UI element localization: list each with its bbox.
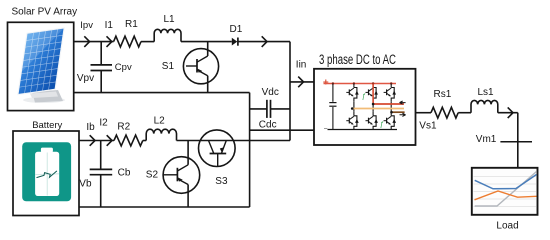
svg-text:Vdc: Vdc: [262, 87, 279, 98]
svg-text:Ipv: Ipv: [80, 20, 93, 31]
arrow Ib: [90, 135, 95, 146]
svg-text:Ls1: Ls1: [478, 87, 495, 98]
transistor S1: [183, 49, 218, 84]
svg-text:Battery: Battery: [32, 120, 62, 131]
svg-text:Vm1: Vm1: [476, 134, 497, 145]
inverter dc-link capacitor: [332, 84, 334, 102]
svg-text:I1: I1: [105, 20, 114, 31]
svg-text:Cb: Cb: [118, 168, 131, 179]
svg-text:S3: S3: [215, 176, 228, 187]
leg 2 mid wire: [372, 101, 374, 112]
transistor S2: [163, 157, 200, 194]
resistor Rs1: [431, 107, 458, 118]
transistor S3: [199, 130, 236, 167]
phase line A orange: [352, 108, 404, 110]
wire: positive bus vertical: [289, 42, 291, 141]
wire: battery bottom rail: [79, 206, 250, 208]
IGBT top leg 1: [353, 84, 355, 88]
wire: down to load: [517, 113, 519, 168]
wire: negative bus vertical: [249, 93, 251, 207]
capacitor Cb branch wire: [100, 141, 102, 170]
solar PV array box: [8, 22, 74, 110]
svg-text:Load: Load: [496, 220, 518, 231]
inverter + label: [323, 80, 328, 85]
rail junction dots: [332, 82, 334, 84]
svg-text:L2: L2: [154, 115, 166, 126]
inductor Ls1: [471, 100, 498, 112]
svg-text:Cdc: Cdc: [259, 120, 277, 131]
battery icon: [22, 142, 71, 201]
svg-text:ƒ: ƒ: [380, 120, 384, 129]
inductor L1: [154, 29, 181, 41]
svg-text:Vpv: Vpv: [77, 73, 94, 84]
svg-text:L1: L1: [164, 14, 176, 25]
solar panel image: [17, 27, 65, 103]
wire: PV top rail: [74, 41, 114, 43]
svg-text:R2: R2: [117, 122, 130, 133]
arrow I1: [107, 36, 112, 47]
svg-text:R1: R1: [125, 19, 138, 30]
phase line C brown: [391, 111, 404, 113]
capacitor Cdc plates: [266, 100, 268, 118]
svg-text:Iin: Iin: [296, 59, 307, 70]
arrow on brown phase: [400, 113, 406, 116]
load chart: [474, 172, 537, 207]
measurement Vm1 tick: [500, 141, 532, 143]
arrow output: [508, 107, 513, 118]
svg-text:I2: I2: [99, 117, 108, 128]
IGBT bottom leg 2: [372, 112, 374, 116]
svg-text:ƒ: ƒ: [362, 92, 366, 101]
resistor R1: [114, 36, 141, 47]
arrow on red phase: [400, 101, 406, 104]
inverter box: [314, 69, 416, 145]
svg-text:S1: S1: [162, 61, 175, 72]
capacitor Cpv branch wire: [100, 42, 102, 65]
IGBT top leg 3: [390, 84, 392, 88]
leg 3 mid wire: [390, 101, 392, 112]
leg 1 mid wire: [353, 101, 355, 112]
svg-text:Ib: Ib: [86, 122, 95, 133]
svg-text:Vs1: Vs1: [419, 120, 437, 131]
load box: [472, 168, 538, 215]
wire: battery top rail: [79, 140, 114, 142]
IGBT bottom leg 1: [353, 112, 355, 116]
wire: Iin branch: [290, 81, 314, 83]
battery box: [13, 131, 79, 216]
svg-text:D1: D1: [230, 24, 243, 35]
wire: PV bottom rail: [74, 92, 250, 94]
phase line B red: [373, 103, 404, 105]
capacitor Cb: [90, 168, 113, 170]
wire: inverter output: [416, 112, 432, 114]
inductor L2: [146, 129, 176, 140]
IGBT top leg 2: [372, 84, 374, 88]
svg-text:Cpv: Cpv: [115, 62, 132, 73]
inverter red positive rail: [324, 83, 397, 85]
capacitor Cdc wires: [250, 108, 267, 110]
svg-text:Solar PV Array: Solar PV Array: [12, 6, 78, 17]
diode D1: [232, 38, 238, 46]
arrow after D1: [262, 36, 267, 47]
svg-text:Rs1: Rs1: [434, 89, 452, 100]
capacitor Cpv: [91, 64, 113, 66]
wire: negative bus to inverter: [250, 129, 314, 131]
arrow Iin: [298, 77, 303, 88]
red vertical leg2 feed: [372, 84, 374, 105]
arrow Ipv: [84, 36, 89, 47]
phase junction dots: [351, 107, 354, 110]
svg-text:S2: S2: [146, 170, 159, 181]
IGBT bottom leg 3: [390, 112, 392, 116]
arrow I2: [107, 135, 112, 146]
svg-text:Vb: Vb: [79, 178, 92, 189]
svg-text:3 phase DC to AC: 3 phase DC to AC: [319, 52, 396, 67]
inverter negative rail: [328, 129, 398, 131]
resistor R2: [114, 135, 143, 146]
